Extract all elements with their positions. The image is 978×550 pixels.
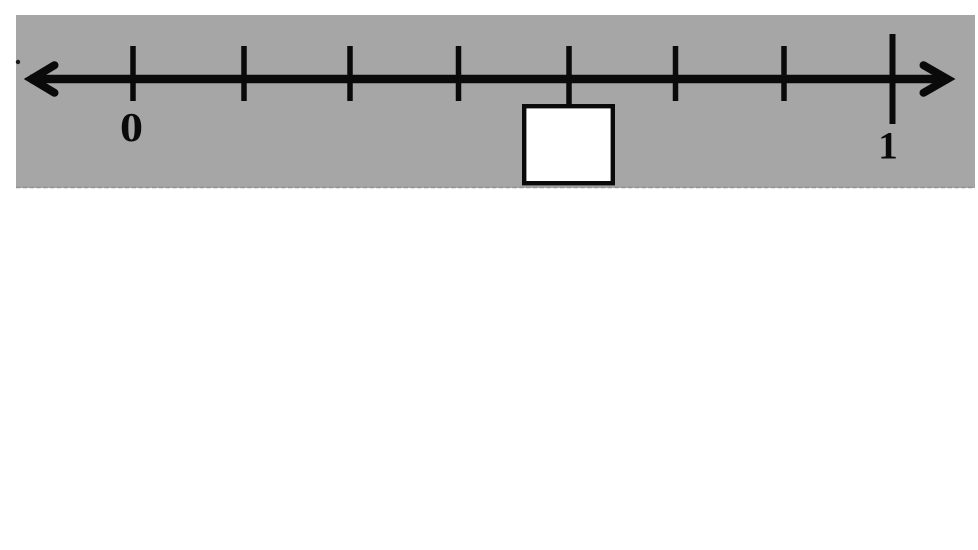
- stray dot: [16, 60, 20, 64]
- scalloped bottom edge of banner: [16, 186, 975, 188]
- tick 3/7: [456, 46, 462, 101]
- right arrowhead: [924, 65, 948, 93]
- svg-text:1: 1: [878, 125, 898, 168]
- left arrowhead: [32, 65, 55, 93]
- answer box: [524, 106, 613, 183]
- tick 1/7: [241, 46, 247, 101]
- tick 5/7: [673, 46, 679, 101]
- number line axis: [30, 75, 948, 84]
- svg-text:0: 0: [120, 104, 143, 150]
- tick 1 (long): [890, 34, 896, 124]
- gray banner background: [16, 15, 975, 188]
- tick 4/7 (above answer box): [566, 46, 572, 104]
- tick 2/7: [347, 46, 353, 101]
- tick 6/7: [781, 46, 787, 101]
- tick 0: [130, 46, 136, 101]
